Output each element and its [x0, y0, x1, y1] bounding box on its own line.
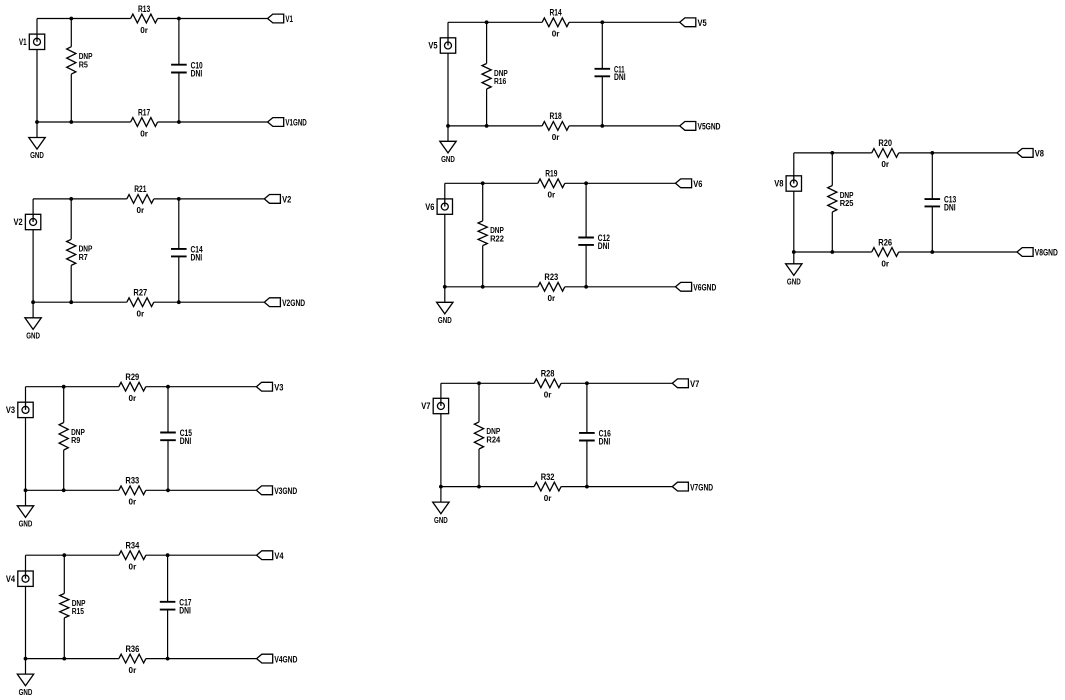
svg-text:V4: V4 — [274, 551, 283, 561]
wire — [444, 183, 446, 302]
junction — [792, 250, 796, 254]
svg-text:R36: R36 — [126, 644, 140, 654]
svg-text:GND: GND — [30, 150, 44, 160]
ground — [440, 141, 456, 164]
junction — [481, 181, 485, 185]
resistor R32 0r — [534, 472, 561, 503]
svg-text:R29: R29 — [125, 372, 139, 382]
junction — [166, 488, 170, 492]
resistor R29 0r — [119, 372, 146, 403]
resistor R21 0r — [127, 184, 154, 215]
wire — [26, 386, 257, 388]
wire — [63, 555, 65, 658]
svg-text:0r: 0r — [544, 493, 552, 503]
svg-text:R7: R7 — [79, 252, 88, 262]
wire — [36, 19, 38, 138]
port V3GND — [256, 486, 297, 496]
resistor R18 0r — [542, 111, 569, 142]
voltage source V4 — [6, 571, 33, 586]
svg-text:0r: 0r — [544, 390, 552, 400]
junction — [69, 17, 73, 21]
svg-text:R13: R13 — [138, 4, 150, 14]
svg-text:0r: 0r — [128, 497, 136, 507]
svg-text:V2GND: V2GND — [282, 298, 305, 308]
wire — [482, 183, 484, 286]
junction — [439, 485, 443, 489]
resistor R17 0r — [131, 107, 158, 138]
resistor R26 0r — [872, 237, 899, 268]
resistor R14 0r — [542, 8, 569, 39]
voltage source V8 — [774, 176, 801, 191]
junction — [35, 120, 39, 124]
junction — [930, 250, 934, 254]
junction — [477, 381, 481, 385]
svg-text:GND: GND — [434, 515, 448, 525]
voltage source V1 — [19, 34, 45, 49]
resistor R24 (DNP) — [474, 422, 500, 449]
junction — [585, 485, 589, 489]
ground — [17, 506, 33, 529]
junction — [830, 151, 834, 155]
svg-text:V8GND: V8GND — [1035, 248, 1058, 258]
junction — [930, 151, 934, 155]
port V6GND — [676, 282, 717, 292]
svg-text:R14: R14 — [550, 8, 562, 18]
resistor R5 (DNP) — [67, 47, 93, 74]
junction — [166, 385, 170, 389]
capacitor C12 DNI — [578, 233, 610, 251]
svg-text:0r: 0r — [136, 205, 144, 215]
port V1 — [268, 14, 293, 24]
wire — [70, 19, 72, 123]
wire — [63, 387, 65, 491]
wire — [178, 199, 180, 302]
svg-text:V6: V6 — [425, 202, 434, 212]
svg-text:GND: GND — [441, 154, 455, 164]
capacitor C10 DNI — [171, 60, 203, 78]
wire — [167, 555, 169, 658]
svg-text:R5: R5 — [79, 59, 88, 69]
svg-text:DNI: DNI — [599, 436, 611, 446]
wire — [447, 22, 449, 141]
svg-text:0r: 0r — [881, 159, 889, 169]
svg-text:V7: V7 — [421, 401, 430, 411]
junction — [477, 485, 481, 489]
junction — [584, 181, 588, 185]
wire — [440, 383, 442, 502]
svg-text:R16: R16 — [494, 76, 506, 86]
ground — [437, 302, 453, 325]
wire — [33, 301, 264, 303]
junction — [830, 250, 834, 254]
junction — [24, 657, 28, 661]
svg-text:0r: 0r — [552, 29, 560, 39]
junction — [62, 553, 66, 557]
wire — [794, 152, 1017, 154]
svg-text:0r: 0r — [881, 258, 889, 268]
svg-text:V3GND: V3GND — [274, 486, 297, 496]
wire — [441, 382, 672, 384]
svg-text:0r: 0r — [140, 128, 148, 138]
svg-text:R24: R24 — [486, 435, 500, 445]
resistor R27 0r — [127, 288, 154, 319]
wire — [793, 153, 795, 264]
junction — [69, 300, 73, 304]
svg-text:V7GND: V7GND — [690, 482, 713, 492]
svg-text:0r: 0r — [129, 665, 137, 675]
wire — [486, 22, 488, 126]
junction — [177, 300, 181, 304]
voltage source V3 — [6, 402, 33, 417]
svg-text:V1: V1 — [19, 37, 27, 47]
capacitor C14 DNI — [171, 245, 203, 263]
junction — [585, 381, 589, 385]
resistor R7 (DNP) — [67, 239, 93, 265]
port V5 — [680, 18, 707, 28]
svg-text:V2: V2 — [282, 195, 291, 205]
wire — [25, 387, 27, 506]
svg-text:GND: GND — [438, 315, 452, 325]
svg-text:DNI: DNI — [614, 72, 626, 82]
resistor R13 0r — [131, 4, 158, 35]
resistor R16 (DNP) — [482, 64, 508, 90]
junction — [31, 300, 35, 304]
junction — [177, 197, 181, 201]
junction — [24, 488, 28, 492]
port V8GND — [1017, 248, 1058, 258]
svg-text:R28: R28 — [541, 369, 555, 379]
svg-text:GND: GND — [26, 331, 40, 341]
wire — [178, 19, 180, 123]
wire — [441, 486, 672, 488]
wire — [831, 153, 833, 252]
svg-text:0r: 0r — [140, 25, 148, 35]
junction — [166, 657, 170, 661]
svg-text:V8: V8 — [1035, 149, 1044, 159]
wire — [448, 21, 680, 23]
wire — [26, 489, 257, 491]
svg-text:R22: R22 — [490, 234, 504, 244]
wire — [445, 286, 676, 288]
junction — [600, 124, 604, 128]
capacitor C17 DNI — [160, 597, 192, 615]
junction — [62, 657, 66, 661]
port V5GND — [680, 122, 721, 132]
resistor R23 0r — [538, 272, 565, 303]
voltage source V2 — [14, 214, 41, 229]
ground — [786, 264, 802, 287]
resistor R19 0r — [538, 169, 565, 200]
resistor R36 0r — [119, 644, 146, 675]
ground — [433, 502, 449, 525]
junction — [485, 20, 489, 24]
svg-text:R17: R17 — [138, 107, 150, 117]
resistor R22 (DNP) — [478, 221, 504, 246]
svg-text:V1: V1 — [285, 14, 293, 24]
junction — [443, 285, 447, 289]
resistor R33 0r — [119, 476, 146, 507]
ground — [25, 318, 41, 341]
resistor R34 0r — [119, 541, 146, 572]
svg-text:V4: V4 — [6, 574, 15, 584]
junction — [177, 17, 181, 21]
port V2 — [264, 195, 291, 205]
wire — [585, 183, 587, 286]
svg-text:V4GND: V4GND — [274, 654, 297, 664]
capacitor C13 DNI — [925, 195, 957, 213]
svg-text:R9: R9 — [71, 435, 80, 445]
svg-text:R18: R18 — [550, 111, 562, 121]
voltage source V5 — [428, 38, 455, 53]
svg-text:V2: V2 — [14, 217, 23, 227]
svg-text:0r: 0r — [552, 132, 560, 142]
wire — [448, 125, 680, 127]
svg-text:R33: R33 — [125, 476, 139, 486]
resistor R28 0r — [534, 369, 561, 400]
svg-text:DNI: DNI — [944, 202, 956, 212]
junction — [62, 385, 66, 389]
svg-text:V3: V3 — [6, 405, 15, 415]
svg-text:GND: GND — [19, 519, 33, 529]
svg-text:DNI: DNI — [179, 606, 191, 616]
port V8 — [1017, 149, 1044, 159]
svg-text:V6GND: V6GND — [693, 283, 716, 293]
svg-text:R15: R15 — [72, 606, 84, 616]
ground — [17, 674, 33, 697]
wire — [794, 251, 1017, 253]
port V7GND — [672, 482, 713, 492]
voltage source V6 — [425, 199, 452, 214]
port V2GND — [264, 298, 305, 308]
port V7 — [672, 379, 699, 389]
resistor R15 (DNP) — [60, 594, 86, 618]
wire — [601, 22, 603, 126]
svg-text:V5GND: V5GND — [698, 122, 721, 132]
wire — [931, 153, 933, 252]
resistor R25 (DNP) — [828, 186, 854, 213]
junction — [166, 553, 170, 557]
port V4GND — [257, 654, 298, 664]
wire — [33, 198, 264, 200]
wire — [70, 199, 72, 302]
svg-text:R26: R26 — [878, 237, 892, 247]
port V1GND — [268, 118, 308, 128]
svg-text:R32: R32 — [541, 472, 555, 482]
svg-text:V5: V5 — [698, 18, 707, 28]
resistor R20 0r — [872, 138, 899, 169]
svg-text:R20: R20 — [878, 138, 892, 148]
svg-text:V7: V7 — [690, 379, 699, 389]
junction — [446, 124, 450, 128]
junction — [62, 488, 66, 492]
junction — [485, 124, 489, 128]
wire — [478, 383, 480, 486]
svg-text:R27: R27 — [133, 288, 147, 298]
capacitor C16 DNI — [579, 429, 611, 447]
svg-text:V8: V8 — [774, 179, 783, 189]
wire — [37, 18, 268, 20]
svg-text:DNI: DNI — [598, 241, 610, 251]
svg-text:V1GND: V1GND — [285, 118, 307, 128]
port V6 — [676, 179, 703, 189]
junction — [600, 20, 604, 24]
voltage source V7 — [421, 398, 448, 413]
svg-text:DNI: DNI — [191, 252, 203, 262]
wire — [26, 554, 257, 556]
svg-text:R34: R34 — [126, 541, 140, 551]
svg-text:V6: V6 — [693, 179, 702, 189]
junction — [584, 285, 588, 289]
wire — [167, 387, 169, 491]
ground — [29, 138, 45, 161]
svg-text:0r: 0r — [129, 562, 137, 572]
wire — [37, 121, 268, 123]
svg-text:0r: 0r — [547, 190, 555, 200]
junction — [69, 197, 73, 201]
capacitor C11 DNI — [595, 64, 626, 82]
svg-text:R23: R23 — [544, 272, 558, 282]
wire — [445, 182, 676, 184]
svg-text:V5: V5 — [428, 41, 437, 51]
svg-text:GND: GND — [787, 277, 801, 287]
wire — [25, 555, 27, 674]
svg-text:GND: GND — [19, 687, 33, 697]
svg-text:0r: 0r — [547, 293, 555, 303]
svg-text:R21: R21 — [134, 184, 146, 194]
svg-text:R19: R19 — [545, 169, 557, 179]
svg-text:DNI: DNI — [191, 68, 203, 78]
junction — [481, 285, 485, 289]
svg-text:V3: V3 — [274, 382, 283, 392]
wire — [586, 383, 588, 486]
wire — [26, 658, 257, 660]
svg-text:0r: 0r — [136, 309, 144, 319]
svg-text:R25: R25 — [840, 198, 854, 208]
svg-text:DNI: DNI — [180, 436, 192, 446]
junction — [69, 120, 73, 124]
junction — [177, 120, 181, 124]
capacitor C15 DNI — [160, 428, 192, 446]
wire — [32, 199, 34, 318]
resistor R9 (DNP) — [59, 423, 85, 451]
svg-text:0r: 0r — [128, 393, 136, 403]
port V3 — [256, 382, 283, 392]
port V4 — [257, 551, 284, 561]
